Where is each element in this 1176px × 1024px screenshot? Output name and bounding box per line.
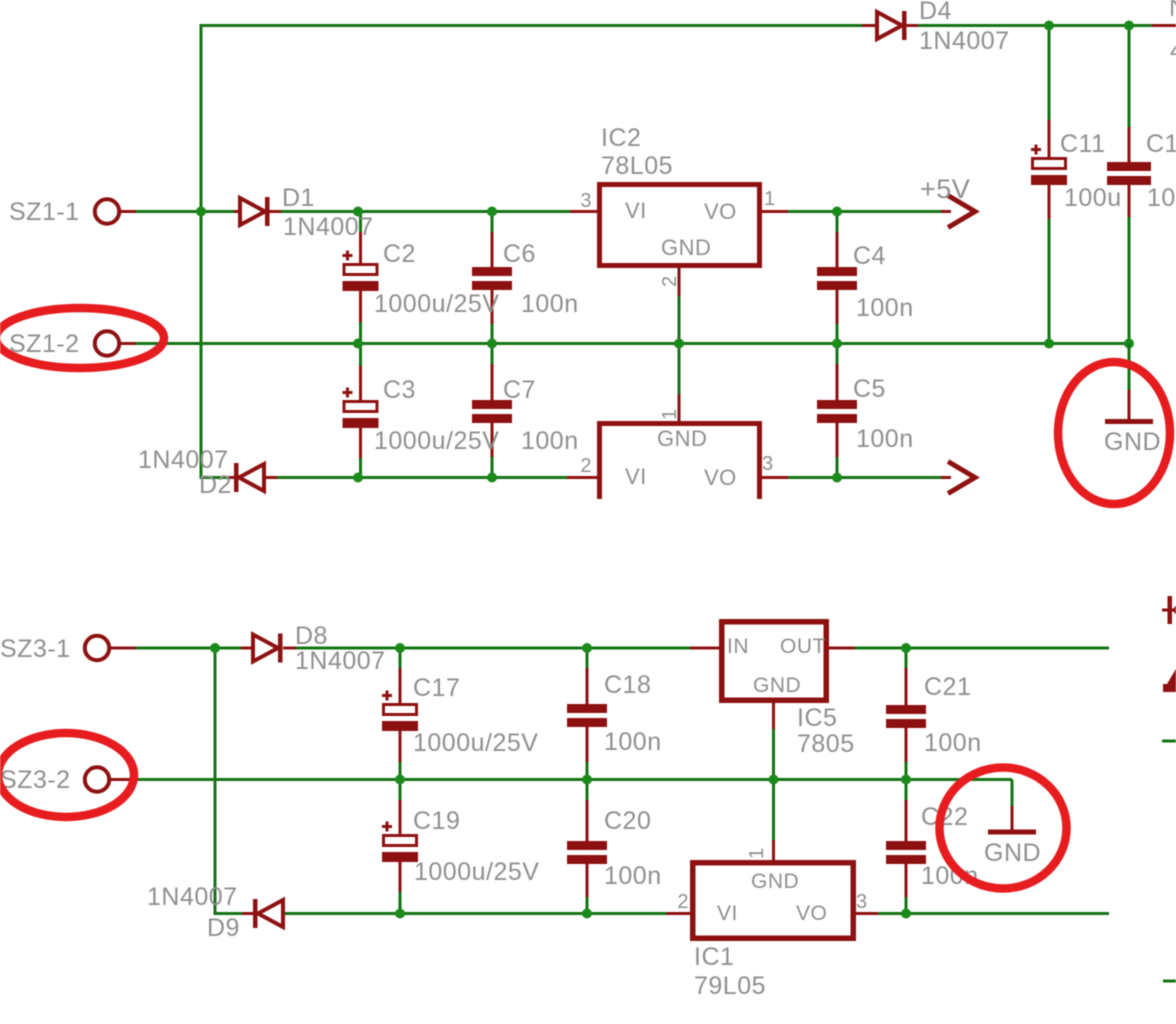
svg-text:C6: C6 (503, 240, 536, 268)
svg-text:1N4007: 1N4007 (138, 446, 229, 474)
svg-text:GND: GND (657, 426, 707, 451)
pin C20 (586, 800, 589, 841)
pin C12 (1128, 127, 1131, 163)
node row D junctions (210, 643, 220, 653)
capacitor C4 (817, 267, 857, 290)
wire row C y=477 trunk to D2 (201, 476, 232, 479)
capacitor C5 (817, 400, 857, 423)
svg-text:D1: D1 (282, 184, 315, 212)
svg-text:VO: VO (796, 902, 827, 925)
node top bus junctions (1044, 21, 1054, 31)
svg-text:IC2: IC2 (601, 124, 641, 152)
svg-text:SZ1-2: SZ1-2 (9, 330, 80, 358)
pin C3 (359, 366, 362, 401)
svg-text:GND: GND (1104, 428, 1161, 456)
fragment capacitor right edge (1163, 684, 1176, 692)
node row F junctions (395, 909, 405, 919)
svg-text:SZ1-1: SZ1-1 (9, 198, 80, 226)
pin C2 (359, 232, 362, 264)
svg-text:1N4007: 1N4007 (147, 883, 238, 911)
svg-text:D4: D4 (919, 0, 952, 25)
svg-text:C5: C5 (853, 375, 886, 403)
svg-text:C4: C4 (853, 242, 886, 270)
svg-text:100n: 100n (856, 294, 914, 322)
svg-text:1N4007: 1N4007 (295, 647, 386, 675)
svg-text:78L05: 78L05 (601, 152, 673, 180)
wire C19 column (399, 780, 402, 914)
wire row F IC1 to end (878, 912, 1109, 915)
svg-text:SZ3-1: SZ3-1 (0, 635, 71, 663)
svg-text:100n: 100n (604, 728, 662, 756)
wire row D D8 to IC5 (285, 647, 692, 650)
svg-text:GND: GND (751, 870, 799, 893)
wire C3 column (359, 344, 362, 478)
capacitor C6 (472, 267, 512, 290)
svg-text:1N4007: 1N4007 (283, 213, 374, 241)
svg-text:C11: C11 (1060, 130, 1106, 158)
pin C17 (399, 668, 402, 704)
capacitor C7 (472, 400, 512, 423)
svg-text:79L05: 79L05 (694, 972, 766, 1000)
svg-text:1N4007: 1N4007 (919, 27, 1010, 55)
wire row A D1 to IC2 (273, 210, 572, 213)
svg-text:C17: C17 (413, 674, 460, 702)
ground GND top (1128, 344, 1131, 391)
pin C7 (491, 364, 494, 401)
diode D8 (253, 635, 278, 662)
svg-text:GND: GND (984, 839, 1041, 867)
svg-text:SZ3-2: SZ3-2 (0, 766, 71, 794)
wire IC1 pin1 (772, 780, 775, 843)
connector pin SZ1-2 (95, 331, 119, 355)
wire C2 column (359, 212, 362, 344)
svg-text:3: 3 (580, 190, 592, 212)
svg-text:C21: C21 (924, 673, 971, 701)
capacitor C3 (343, 388, 353, 398)
node row B junctions (353, 339, 363, 349)
svg-text:100n: 100n (604, 862, 662, 890)
svg-text:C2: C2 (383, 240, 416, 268)
svg-text:1000u/25V: 1000u/25V (374, 427, 499, 455)
wire C22 column (905, 780, 908, 914)
svg-text:GND: GND (661, 235, 711, 260)
svg-text:D9: D9 (207, 914, 240, 942)
svg-text:1000u/25V: 1000u/25V (414, 858, 539, 886)
svg-text:+5V: +5V (920, 174, 970, 204)
wire C11 column (1048, 26, 1051, 344)
wire 79L05 pin1 from row B (678, 344, 681, 397)
annotation ellipse SZ3-2 (0, 733, 134, 817)
svg-text:C12: C12 (1146, 130, 1176, 158)
svg-text:VI: VI (717, 902, 738, 925)
wire pin stub IC5 IN (690, 647, 719, 650)
wire pin stub IC1 pin2 (666, 912, 690, 915)
svg-text:3: 3 (762, 453, 774, 475)
diode D4 (877, 12, 902, 39)
capacitor C17 (382, 691, 392, 701)
diode D2 (234, 463, 239, 492)
wire pin stub IC5 OUT (828, 647, 857, 650)
capacitor C18 (567, 704, 607, 727)
wire row C IC to arrow (788, 476, 944, 479)
wire top bus D4 to right edge (918, 24, 1152, 27)
wire C17 column (399, 648, 402, 780)
regulator IC1 box (693, 863, 854, 939)
pin C5 (836, 364, 839, 401)
pin C19 (399, 800, 402, 835)
wire pin stub IC1 pin3 (855, 912, 880, 915)
svg-text:C7: C7 (503, 376, 536, 404)
svg-text:100n: 100n (521, 427, 579, 455)
svg-text:GND: GND (753, 674, 801, 697)
op-amp IC2 box (600, 185, 760, 266)
capacitor C21 (886, 705, 926, 728)
svg-text:IC5: IC5 (797, 704, 837, 732)
wire trunk vertical x=201 (200, 24, 203, 479)
svg-text:OUT: OUT (780, 635, 826, 658)
svg-text:IN: IN (727, 635, 749, 658)
svg-text:N: N (1169, 0, 1176, 22)
svg-text:C19: C19 (413, 807, 460, 835)
svg-text:C3: C3 (383, 376, 416, 404)
svg-text:2: 2 (580, 455, 592, 477)
svg-text:1: 1 (764, 188, 776, 210)
svg-text:100n: 100n (856, 425, 914, 453)
wire C7 column (491, 344, 494, 478)
wire pin stub right edge top (1152, 24, 1176, 27)
wire pin stub SZ1-1 (110, 210, 136, 213)
ground GND bottom (1011, 780, 1014, 808)
wire row E SZ3-2 (121, 778, 1012, 781)
capacitor C20 (567, 841, 607, 864)
wire row C D2 to IC (269, 476, 569, 479)
svg-text:D2: D2 (199, 471, 232, 499)
capacitor C12 (1107, 162, 1151, 185)
wire C5 column (836, 344, 839, 478)
wire pin stub SZ1-2 (110, 342, 136, 345)
svg-text:100n: 100n (1147, 184, 1176, 212)
svg-text:2: 2 (677, 891, 689, 913)
node row E junctions (395, 775, 405, 785)
wire pin stub IC2 pin1 (761, 210, 790, 213)
pin C4 (836, 232, 839, 268)
wire IC2 pin2 to row B (678, 294, 681, 344)
connector pin SZ3-2 (85, 767, 109, 791)
wire C6 column (491, 212, 494, 344)
wire row A junction to D1 (201, 210, 236, 213)
annotation ellipse SZ1-2 (0, 308, 164, 368)
capacitor C2 (343, 251, 353, 261)
wire C12 column (1128, 26, 1131, 344)
fragment wire right edge 981 (1163, 980, 1176, 983)
svg-text:C18: C18 (604, 671, 651, 699)
wire IC5 GND pin (772, 727, 775, 780)
regulator IC5 box (722, 622, 827, 701)
wire pin stub IC2 pin3 (570, 210, 599, 213)
pin C21 (905, 668, 908, 705)
diode D1 (240, 198, 265, 225)
fragment wire right edge 741 (1162, 740, 1176, 743)
capacitor C19 (382, 822, 392, 832)
svg-text:IC1: IC1 (694, 943, 734, 971)
svg-text:100n: 100n (924, 729, 982, 757)
wire row A IC2 to +5V arrow (788, 210, 944, 213)
svg-text:100u: 100u (1064, 184, 1122, 212)
connector pin SZ1-1 (95, 199, 119, 223)
wire C21 column (905, 648, 908, 780)
wire trunk bottom x=215 (214, 648, 217, 915)
wire row SZ1-1 circle to junction (121, 210, 201, 213)
svg-text:1: 1 (746, 847, 768, 859)
annotation ellipse GND top (1058, 362, 1170, 504)
wire row D IC5 to end (855, 647, 1109, 650)
wire C18 column (586, 648, 589, 780)
svg-text:100n: 100n (521, 290, 579, 318)
wire row F D9 to IC1 (283, 912, 668, 915)
svg-text:C20: C20 (604, 807, 651, 835)
+5V arrow (948, 196, 975, 228)
fragment diode right edge (1162, 609, 1176, 612)
svg-text:VI: VI (625, 464, 647, 489)
svg-text:2: 2 (659, 275, 681, 287)
pin C18 (586, 668, 589, 705)
diode D9 (253, 899, 258, 928)
svg-text:1: 1 (659, 408, 681, 420)
wire top bus y=25 from trunk to D4 (201, 24, 862, 27)
wire pin stub 79L05 pin2 (567, 476, 597, 479)
svg-text:3: 3 (856, 891, 868, 913)
svg-text:VI: VI (625, 198, 647, 223)
wire C20 column (586, 780, 589, 914)
svg-text:D8: D8 (295, 622, 328, 650)
pin C22 (905, 800, 908, 841)
pin C6 (491, 232, 494, 268)
-5V arrow (948, 462, 975, 494)
regulator 79L05 box open-bottom (600, 424, 760, 500)
node row A junctions (196, 207, 206, 217)
wire pin stub 79L05 pin3 (762, 476, 790, 479)
svg-text:7805: 7805 (797, 730, 855, 758)
svg-text:VO: VO (704, 199, 737, 224)
wire row SZ1-2 y=343 (121, 342, 1129, 345)
svg-text:4: 4 (1170, 37, 1176, 65)
connector pin SZ3-1 (85, 636, 109, 660)
annotation ellipse GND bottom (940, 768, 1067, 889)
svg-text:VO: VO (704, 465, 737, 490)
pin C11 (1048, 120, 1051, 158)
wire row F trunk to D9 (215, 912, 242, 915)
wire C4 column (836, 212, 839, 344)
capacitor C11 (1031, 145, 1041, 155)
wire row D SZ3-1 (121, 647, 248, 650)
capacitor C22 (886, 841, 926, 864)
svg-text:1000u/25V: 1000u/25V (374, 290, 499, 318)
svg-text:1000u/25V: 1000u/25V (413, 729, 538, 757)
node row C junctions (353, 473, 363, 483)
